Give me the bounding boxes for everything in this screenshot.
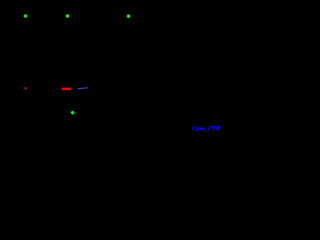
blue bar bbox=[77, 87, 88, 89]
R leg bbox=[213, 127, 214, 130]
m body lump bbox=[198, 128, 204, 130]
red particle bbox=[24, 86, 28, 90]
descender bbox=[204, 129, 207, 131]
green particle 3 bbox=[126, 14, 131, 19]
W strokes bbox=[216, 126, 220, 130]
green particle 1 bbox=[23, 14, 28, 19]
letter J stroke bbox=[196, 126, 198, 131]
green particle 4 bbox=[70, 110, 75, 115]
signature bbox=[192, 126, 220, 131]
slash bbox=[208, 126, 212, 130]
m bumps bbox=[199, 127, 204, 129]
R top bar bbox=[212, 126, 216, 128]
red bar bbox=[61, 86, 72, 91]
green particle 2 bbox=[65, 14, 70, 19]
R second leg bbox=[214, 127, 217, 129]
letter X bbox=[192, 127, 195, 130]
